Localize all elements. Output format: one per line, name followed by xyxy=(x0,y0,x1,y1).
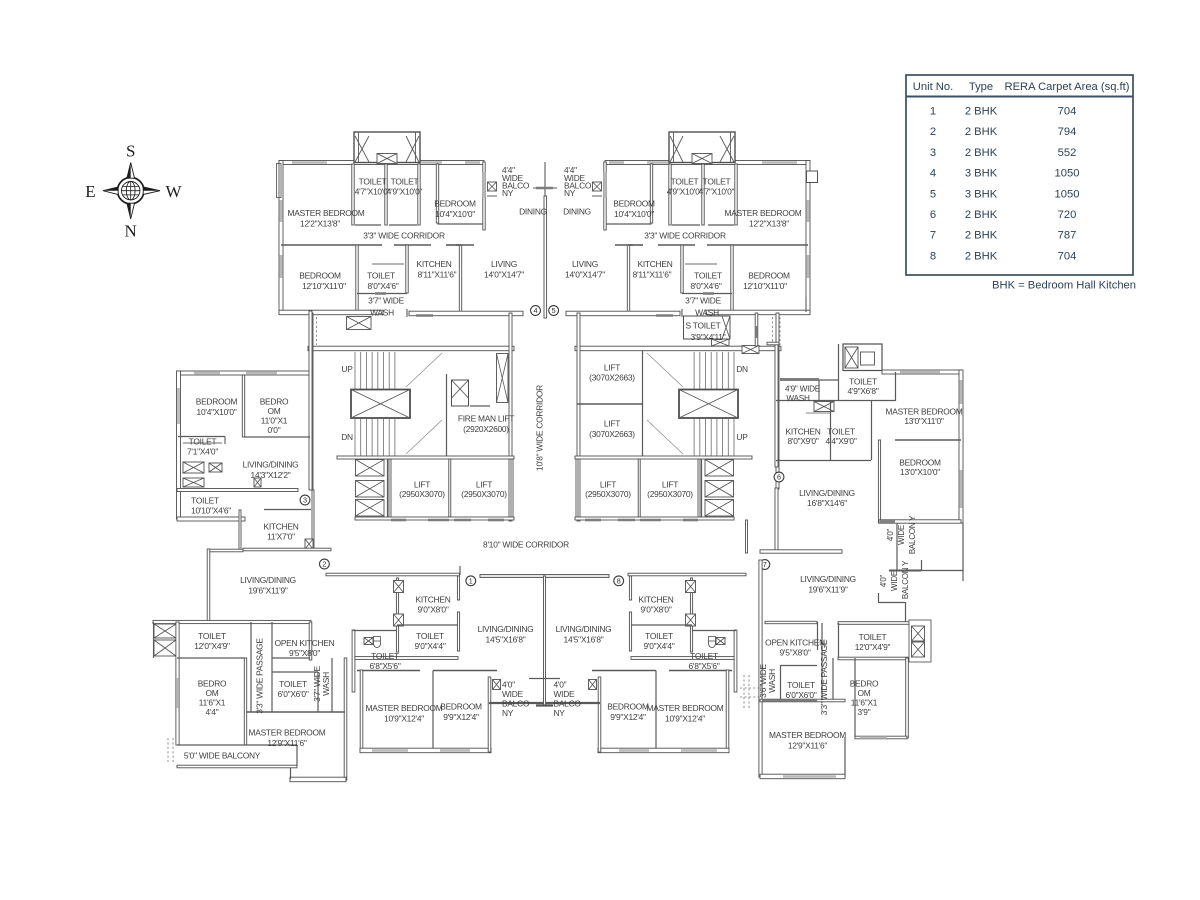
svg-text:E: E xyxy=(85,182,95,201)
svg-text:MASTER BEDROOM: MASTER BEDROOM xyxy=(769,730,846,740)
svg-text:4'0": 4'0" xyxy=(886,528,895,541)
svg-text:KITCHEN: KITCHEN xyxy=(263,522,298,532)
svg-text:4'9" WIDE: 4'9" WIDE xyxy=(785,384,821,393)
svg-text:LIFT: LIFT xyxy=(662,479,678,489)
svg-text:9'5"X8'0": 9'5"X8'0" xyxy=(289,648,320,658)
svg-text:BEDROOM: BEDROOM xyxy=(607,701,649,711)
svg-text:LIVING: LIVING xyxy=(491,259,517,269)
S toilet of unit 5 xyxy=(684,316,731,339)
unit 5 right outer window box xyxy=(807,171,818,183)
svg-text:1: 1 xyxy=(930,106,936,118)
svg-text:WASH: WASH xyxy=(370,307,394,317)
unit 4 walls xyxy=(279,161,484,165)
svg-text:4'0": 4'0" xyxy=(554,679,567,689)
svg-text:WASH: WASH xyxy=(321,672,331,696)
unit 4 wash crossed box xyxy=(347,317,372,330)
svg-text:12'2"X13'8": 12'2"X13'8" xyxy=(300,219,340,229)
svg-text:9'0"X4'4": 9'0"X4'4" xyxy=(643,641,674,651)
svg-text:8'0"X4'6": 8'0"X4'6" xyxy=(367,281,398,291)
svg-text:LIVING/DINING: LIVING/DINING xyxy=(800,574,856,584)
svg-text:9'9"X12'4": 9'9"X12'4" xyxy=(610,712,646,722)
svg-text:2 BHK: 2 BHK xyxy=(965,126,998,138)
svg-text:WIDE: WIDE xyxy=(502,689,524,699)
svg-text:BEDRO: BEDRO xyxy=(850,678,879,688)
center wall between balconies 1 and 8 xyxy=(544,576,546,706)
svg-text:8'10" WIDE CORRIDOR: 8'10" WIDE CORRIDOR xyxy=(483,540,569,550)
svg-text:794: 794 xyxy=(1058,126,1077,138)
svg-text:1050: 1050 xyxy=(1055,188,1080,200)
svg-text:9'0"X8'0": 9'0"X8'0" xyxy=(640,604,671,614)
svg-text:S TOILET: S TOILET xyxy=(686,321,721,331)
unit 6 walls xyxy=(775,343,778,467)
svg-text:7: 7 xyxy=(763,560,767,569)
svg-text:6'8"X5'6": 6'8"X5'6" xyxy=(688,661,719,671)
svg-text:BEDRO: BEDRO xyxy=(198,678,227,688)
svg-text:4'0": 4'0" xyxy=(879,574,888,587)
corridor bottom wall right piece xyxy=(628,573,746,576)
svg-text:(2950X3070): (2950X3070) xyxy=(399,489,445,499)
svg-text:LIFT: LIFT xyxy=(600,479,616,489)
svg-text:MASTER BEDROOM: MASTER BEDROOM xyxy=(647,703,724,713)
svg-text:WASH: WASH xyxy=(695,307,719,317)
unit 8 walls (mirror of unit 1) xyxy=(480,575,737,753)
svg-text:WASH: WASH xyxy=(786,394,810,403)
svg-text:NY: NY xyxy=(502,188,514,198)
svg-text:BHK = Bedroom Hall Kitchen: BHK = Bedroom Hall Kitchen xyxy=(992,280,1136,292)
svg-text:12'0"X4'9": 12'0"X4'9" xyxy=(855,642,891,652)
svg-text:WIDE: WIDE xyxy=(897,525,906,545)
unit 3 walls xyxy=(177,371,311,375)
svg-text:BEDRO: BEDRO xyxy=(260,396,289,406)
svg-text:BEDROOM: BEDROOM xyxy=(434,199,476,209)
svg-text:BEDROOM: BEDROOM xyxy=(299,270,341,280)
svg-text:BALCO: BALCO xyxy=(502,698,530,708)
stair and lift core right (mirror) xyxy=(575,313,781,521)
svg-text:8'0"X9'0": 8'0"X9'0" xyxy=(787,436,818,446)
svg-text:14'0"X14'7": 14'0"X14'7" xyxy=(484,270,524,280)
svg-text:5'0" WIDE BALCONY: 5'0" WIDE BALCONY xyxy=(184,750,261,760)
svg-text:10'9"X12'4": 10'9"X12'4" xyxy=(665,713,705,723)
svg-text:LIVING/DINING: LIVING/DINING xyxy=(240,575,296,585)
svg-text:3'3" WIDE PASSAGE: 3'3" WIDE PASSAGE xyxy=(819,639,829,715)
svg-text:8'0"X4'6": 8'0"X4'6" xyxy=(690,281,721,291)
svg-text:TOILET: TOILET xyxy=(359,176,387,186)
svg-text:8'11"X11'6": 8'11"X11'6" xyxy=(418,270,457,280)
svg-text:LIVING/DINING: LIVING/DINING xyxy=(556,624,612,634)
svg-text:12'10"X11'0": 12'10"X11'0" xyxy=(743,281,787,291)
corridor bottom wall left piece xyxy=(326,573,460,576)
svg-text:TOILET: TOILET xyxy=(690,651,718,661)
svg-text:2 BHK: 2 BHK xyxy=(965,230,998,242)
unit 1 walls xyxy=(480,575,609,578)
svg-text:(3070X2663): (3070X2663) xyxy=(589,429,635,439)
svg-text:3'9": 3'9" xyxy=(858,707,871,717)
svg-text:TOILET: TOILET xyxy=(645,631,673,641)
svg-text:1050: 1050 xyxy=(1055,168,1080,180)
svg-text:2 BHK: 2 BHK xyxy=(965,250,998,262)
svg-text:WIDE: WIDE xyxy=(554,689,576,699)
svg-text:3'3" WIDE CORRIDOR: 3'3" WIDE CORRIDOR xyxy=(363,231,445,241)
unit 6 / 7 junction walls xyxy=(760,550,842,553)
svg-text:MASTER BEDROOM: MASTER BEDROOM xyxy=(249,727,326,737)
svg-text:13'0"X11'0": 13'0"X11'0" xyxy=(904,416,944,426)
svg-text:3'9"X4'11": 3'9"X4'11" xyxy=(691,332,726,342)
svg-text:10'4"X10'0": 10'4"X10'0" xyxy=(614,209,654,219)
svg-text:NY: NY xyxy=(502,708,514,718)
svg-text:4: 4 xyxy=(930,168,936,180)
svg-text:12'9"X11'6": 12'9"X11'6" xyxy=(788,741,828,751)
svg-text:OPEN KITCHEN: OPEN KITCHEN xyxy=(765,638,825,648)
svg-text:2 BHK: 2 BHK xyxy=(965,147,998,159)
svg-text:UP: UP xyxy=(341,364,353,374)
svg-text:14'5"X16'8": 14'5"X16'8" xyxy=(564,634,604,644)
unit 5 walls (mirror of unit 4) xyxy=(566,132,810,345)
svg-text:4: 4 xyxy=(534,306,538,315)
svg-text:KITCHEN: KITCHEN xyxy=(785,426,820,436)
compass rose xyxy=(118,178,144,204)
svg-text:WASH: WASH xyxy=(767,669,777,693)
svg-text:LIFT: LIFT xyxy=(476,479,492,489)
unit 2 walls xyxy=(208,549,243,552)
svg-text:4'4"X9'0": 4'4"X9'0" xyxy=(825,436,856,446)
svg-text:11'6"X1: 11'6"X1 xyxy=(851,697,878,707)
svg-text:MASTER BEDROOM: MASTER BEDROOM xyxy=(366,703,443,713)
svg-text:16'8"X14'6": 16'8"X14'6" xyxy=(807,498,847,508)
svg-text:11'X7'0": 11'X7'0" xyxy=(267,532,295,542)
svg-text:4'9"X6'8": 4'9"X6'8" xyxy=(847,386,878,396)
svg-text:4'7"X10'0": 4'7"X10'0" xyxy=(355,186,391,196)
svg-text:9'9"X12'4": 9'9"X12'4" xyxy=(443,712,479,722)
svg-text:19'6"X11'9": 19'6"X11'9" xyxy=(248,586,288,596)
svg-text:OPEN KITCHEN: OPEN KITCHEN xyxy=(275,638,335,648)
right core top crossed box xyxy=(742,346,759,354)
svg-text:8: 8 xyxy=(930,250,936,262)
center wall between living rooms 4 and 5 xyxy=(544,196,547,318)
svg-text:BEDROOM: BEDROOM xyxy=(196,396,238,406)
svg-text:5: 5 xyxy=(552,306,556,315)
svg-text:3 BHK: 3 BHK xyxy=(965,188,998,200)
svg-text:N: N xyxy=(125,222,137,241)
svg-text:BEDROOM: BEDROOM xyxy=(748,270,790,280)
svg-text:DN: DN xyxy=(736,364,748,374)
svg-text:8'11"X11'6": 8'11"X11'6" xyxy=(633,270,672,280)
unit 4 outer window ledge xyxy=(277,164,282,198)
svg-text:14'0"X14'7": 14'0"X14'7" xyxy=(565,270,605,280)
svg-text:(2920X2600): (2920X2600) xyxy=(463,424,509,434)
svg-text:7'1"X4'0": 7'1"X4'0" xyxy=(187,446,218,456)
svg-text:OM: OM xyxy=(206,688,219,698)
svg-text:TOILET: TOILET xyxy=(849,376,877,386)
svg-text:6: 6 xyxy=(930,209,936,221)
corridor left end walls xyxy=(243,548,331,551)
svg-text:WIDE: WIDE xyxy=(890,571,899,591)
svg-text:3 BHK: 3 BHK xyxy=(965,168,998,180)
circled unit numbers 4 and 5 xyxy=(531,306,541,316)
svg-text:S: S xyxy=(126,142,135,161)
svg-text:LIFT: LIFT xyxy=(414,479,430,489)
unit 7 walls xyxy=(759,560,762,777)
svg-text:LIFT: LIFT xyxy=(604,418,620,428)
svg-text:TOILET: TOILET xyxy=(787,680,815,690)
svg-text:11'0"X1: 11'0"X1 xyxy=(261,415,288,425)
svg-text:Unit No.: Unit No. xyxy=(913,81,953,93)
svg-text:(2950X3070): (2950X3070) xyxy=(461,489,507,499)
svg-text:4'7"X10'0": 4'7"X10'0" xyxy=(699,186,735,196)
svg-text:3'3" WIDE CORRIDOR: 3'3" WIDE CORRIDOR xyxy=(644,231,726,241)
svg-text:BALCO: BALCO xyxy=(554,698,582,708)
svg-text:LIVING/DINING: LIVING/DINING xyxy=(799,488,855,498)
svg-text:787: 787 xyxy=(1058,230,1077,242)
svg-text:10'9"X12'4": 10'9"X12'4" xyxy=(384,713,424,723)
svg-text:TOILET: TOILET xyxy=(671,176,699,186)
svg-text:LIVING: LIVING xyxy=(572,259,598,269)
svg-text:6'8"X5'6": 6'8"X5'6" xyxy=(369,661,400,671)
svg-text:9'5"X8'0": 9'5"X8'0" xyxy=(779,648,810,658)
svg-text:14'3"X12'2": 14'3"X12'2" xyxy=(251,470,291,480)
svg-text:6'0"X6'0": 6'0"X6'0" xyxy=(785,690,816,700)
svg-text:TOILET: TOILET xyxy=(189,436,217,446)
svg-text:NY: NY xyxy=(564,188,576,198)
svg-text:10'8" WIDE CORRIDOR: 10'8" WIDE CORRIDOR xyxy=(535,385,545,471)
svg-text:LIVING/DINING: LIVING/DINING xyxy=(478,624,534,634)
svg-text:3'7" WIDE: 3'7" WIDE xyxy=(368,295,404,305)
svg-text:12'9"X11'6": 12'9"X11'6" xyxy=(267,738,307,748)
svg-text:12'10"X11'0": 12'10"X11'0" xyxy=(302,281,346,291)
svg-text:3: 3 xyxy=(930,147,936,159)
svg-text:19'6"X11'9": 19'6"X11'9" xyxy=(808,585,848,595)
svg-text:TOILET: TOILET xyxy=(367,270,395,280)
svg-text:552: 552 xyxy=(1058,147,1077,159)
svg-text:DINING: DINING xyxy=(519,207,547,217)
svg-text:9'0"X4'4": 9'0"X4'4" xyxy=(414,641,445,651)
svg-text:TOILET: TOILET xyxy=(279,679,307,689)
svg-text:10'4"X10'0": 10'4"X10'0" xyxy=(435,209,475,219)
svg-text:NY: NY xyxy=(554,708,566,718)
svg-text:TOILET: TOILET xyxy=(391,176,419,186)
svg-text:7: 7 xyxy=(930,230,936,242)
svg-text:MASTER BEDROOM: MASTER BEDROOM xyxy=(725,208,802,218)
svg-text:4'9"X10'0": 4'9"X10'0" xyxy=(387,186,423,196)
svg-text:12'2"X13'8": 12'2"X13'8" xyxy=(749,219,789,229)
circled 1 2 7 8 xyxy=(466,576,476,586)
svg-text:RERA Carpet Area (sq.ft): RERA Carpet Area (sq.ft) xyxy=(1005,81,1130,93)
svg-text:UP: UP xyxy=(736,432,748,442)
svg-text:2: 2 xyxy=(930,126,936,138)
svg-text:8: 8 xyxy=(617,576,621,585)
svg-text:720: 720 xyxy=(1058,209,1077,221)
svg-text:10'10"X4'6": 10'10"X4'6" xyxy=(191,505,231,515)
balcony divider between units 4 and 5 xyxy=(544,162,546,196)
svg-text:BEDROOM: BEDROOM xyxy=(613,199,655,209)
svg-text:FIRE MAN LIFT: FIRE MAN LIFT xyxy=(458,414,514,424)
svg-text:3'3" WIDE PASSAGE: 3'3" WIDE PASSAGE xyxy=(255,638,265,714)
svg-text:TOILET: TOILET xyxy=(371,651,399,661)
svg-text:W: W xyxy=(165,182,182,201)
svg-text:KITCHEN: KITCHEN xyxy=(637,259,672,269)
svg-text:9'0"X8'0": 9'0"X8'0" xyxy=(417,604,448,614)
svg-text:2 BHK: 2 BHK xyxy=(965,106,998,118)
svg-text:12'0"X4'9": 12'0"X4'9" xyxy=(194,641,230,651)
circled 3 xyxy=(300,495,310,505)
svg-text:OM: OM xyxy=(268,406,281,416)
circled 6 xyxy=(774,472,784,482)
svg-text:5: 5 xyxy=(930,188,936,200)
stair and lift core left xyxy=(308,346,514,351)
svg-text:14'5"X16'8": 14'5"X16'8" xyxy=(486,634,526,644)
svg-text:704: 704 xyxy=(1058,106,1077,118)
svg-text:13'0"X10'0": 13'0"X10'0" xyxy=(900,467,940,477)
svg-text:TOILET: TOILET xyxy=(694,270,722,280)
svg-text:2 BHK: 2 BHK xyxy=(965,209,998,221)
svg-text:2: 2 xyxy=(322,560,326,569)
svg-text:4'9"X10'0": 4'9"X10'0" xyxy=(667,186,703,196)
svg-text:1: 1 xyxy=(469,576,473,585)
svg-text:Type: Type xyxy=(969,81,993,93)
svg-text:LIFT: LIFT xyxy=(604,362,620,372)
svg-text:BALCON Y: BALCON Y xyxy=(901,560,910,599)
svg-text:OM: OM xyxy=(858,688,871,698)
svg-text:BEDROOM: BEDROOM xyxy=(440,701,482,711)
svg-text:4'0": 4'0" xyxy=(502,679,515,689)
svg-text:3: 3 xyxy=(303,496,307,505)
svg-text:MASTER BEDROOM: MASTER BEDROOM xyxy=(288,208,365,218)
svg-text:MASTER BEDROOM: MASTER BEDROOM xyxy=(886,406,963,416)
svg-text:KITCHEN: KITCHEN xyxy=(638,594,673,604)
svg-text:0'0": 0'0" xyxy=(268,425,281,435)
svg-text:(2950X3070): (2950X3070) xyxy=(647,489,693,499)
svg-text:LIVING/DINING: LIVING/DINING xyxy=(243,459,299,469)
svg-text:KITCHEN: KITCHEN xyxy=(416,259,451,269)
svg-text:TOILET: TOILET xyxy=(191,495,219,505)
svg-text:BALCON Y: BALCON Y xyxy=(908,515,917,554)
svg-text:(2950X3070): (2950X3070) xyxy=(585,489,631,499)
svg-text:(3070X2663): (3070X2663) xyxy=(589,373,635,383)
svg-text:6'0"X6'0": 6'0"X6'0" xyxy=(277,689,308,699)
svg-text:TOILET: TOILET xyxy=(703,176,731,186)
svg-text:TOILET: TOILET xyxy=(859,632,887,642)
svg-text:KITCHEN: KITCHEN xyxy=(415,594,450,604)
svg-text:DN: DN xyxy=(341,432,353,442)
svg-text:DINING: DINING xyxy=(563,207,591,217)
svg-text:4'4": 4'4" xyxy=(206,707,219,717)
corridor right end walls xyxy=(755,313,758,346)
svg-text:3'7" WIDE: 3'7" WIDE xyxy=(685,295,721,305)
unit table xyxy=(906,75,1133,275)
svg-text:11'6"X1: 11'6"X1 xyxy=(199,697,226,707)
svg-text:TOILET: TOILET xyxy=(827,426,855,436)
svg-text:6: 6 xyxy=(777,473,781,482)
svg-text:TOILET: TOILET xyxy=(198,631,226,641)
svg-text:10'4"X10'0": 10'4"X10'0" xyxy=(197,407,237,417)
svg-text:TOILET: TOILET xyxy=(416,631,444,641)
svg-text:704: 704 xyxy=(1058,250,1077,262)
svg-text:BEDROOM: BEDROOM xyxy=(899,457,941,467)
